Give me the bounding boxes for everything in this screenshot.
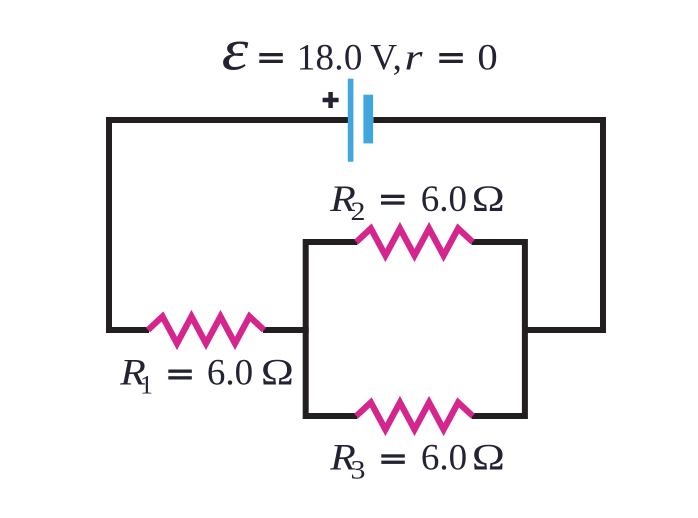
svg-text:ε: ε (222, 17, 249, 83)
svg-text:6.0: 6.0 (421, 438, 467, 479)
svg-text:0: 0 (477, 37, 497, 78)
svg-text:2: 2 (351, 198, 366, 227)
svg-text:r: r (405, 38, 424, 79)
svg-text:6.0: 6.0 (421, 179, 467, 220)
svg-text:Ω: Ω (261, 352, 294, 393)
svg-text:Ω: Ω (472, 437, 505, 478)
svg-text:Ω: Ω (472, 178, 505, 219)
svg-text:18.0 V,: 18.0 V, (297, 38, 402, 79)
svg-text:6.0: 6.0 (207, 352, 253, 393)
svg-text:1: 1 (140, 370, 153, 399)
svg-text:3: 3 (351, 456, 366, 485)
